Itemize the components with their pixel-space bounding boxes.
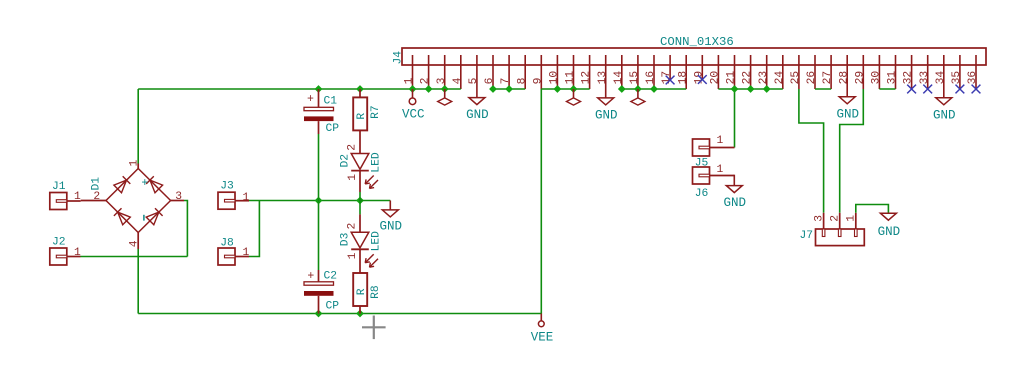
- svg-text:2: 2: [347, 223, 359, 230]
- svg-text:1: 1: [347, 174, 359, 181]
- svg-text:4: 4: [128, 240, 140, 247]
- svg-text:35: 35: [951, 71, 963, 85]
- svg-text:GND: GND: [933, 108, 956, 122]
- svg-text:C1: C1: [324, 95, 338, 107]
- svg-text:6: 6: [484, 77, 496, 84]
- svg-text:22: 22: [742, 71, 754, 85]
- svg-text:D1: D1: [90, 177, 102, 191]
- svg-text:VEE: VEE: [531, 331, 554, 345]
- svg-text:1: 1: [243, 192, 250, 204]
- svg-text:GND: GND: [466, 108, 489, 122]
- svg-text:1: 1: [846, 215, 858, 222]
- svg-text:12: 12: [581, 71, 593, 85]
- svg-text:J7: J7: [800, 230, 814, 242]
- svg-text:LED: LED: [370, 152, 382, 173]
- svg-text:21: 21: [726, 71, 738, 85]
- svg-text:1: 1: [404, 77, 416, 84]
- svg-text:GND: GND: [724, 196, 747, 210]
- svg-text:1: 1: [74, 247, 81, 259]
- svg-text:16: 16: [645, 71, 657, 85]
- svg-text:28: 28: [838, 71, 850, 85]
- svg-text:CONN_01X36: CONN_01X36: [660, 35, 734, 49]
- svg-text:33: 33: [919, 71, 931, 85]
- svg-text:2: 2: [420, 78, 432, 85]
- svg-text:10: 10: [549, 71, 561, 85]
- svg-text:2: 2: [93, 191, 100, 203]
- svg-text:1: 1: [243, 247, 250, 259]
- svg-text:C2: C2: [324, 271, 338, 283]
- svg-text:+: +: [307, 93, 314, 106]
- svg-text:J3: J3: [220, 181, 234, 193]
- svg-text:R8: R8: [370, 285, 382, 299]
- svg-text:D3: D3: [340, 232, 352, 246]
- svg-text:24: 24: [774, 71, 786, 85]
- svg-text:LED: LED: [370, 231, 382, 252]
- svg-text:R7: R7: [370, 105, 382, 119]
- svg-text:D2: D2: [340, 154, 352, 168]
- svg-text:32: 32: [903, 71, 915, 85]
- svg-text:25: 25: [790, 71, 802, 85]
- svg-text:27: 27: [822, 71, 834, 85]
- svg-text:7: 7: [500, 78, 512, 85]
- svg-text:R: R: [356, 288, 368, 295]
- svg-text:3: 3: [436, 77, 448, 84]
- svg-text:1: 1: [347, 252, 359, 259]
- svg-text:18: 18: [677, 71, 689, 85]
- svg-text:CP: CP: [326, 123, 340, 135]
- svg-text:J4: J4: [393, 51, 405, 65]
- svg-text:J1: J1: [52, 181, 66, 193]
- svg-text:3: 3: [175, 191, 182, 203]
- svg-text:9: 9: [532, 78, 544, 85]
- svg-text:CP: CP: [326, 301, 340, 313]
- svg-text:1: 1: [74, 191, 81, 203]
- svg-text:J8: J8: [220, 238, 234, 250]
- svg-text:5: 5: [468, 77, 480, 84]
- svg-text:GND: GND: [380, 220, 403, 234]
- svg-text:2: 2: [830, 215, 842, 222]
- svg-text:VCC: VCC: [402, 108, 425, 122]
- svg-text:GND: GND: [595, 108, 618, 122]
- svg-text:15: 15: [629, 71, 641, 85]
- svg-text:30: 30: [871, 71, 883, 85]
- svg-text:26: 26: [806, 71, 818, 85]
- svg-text:4: 4: [452, 77, 464, 84]
- svg-text:GND: GND: [878, 225, 901, 239]
- svg-text:23: 23: [758, 71, 770, 85]
- svg-text:2: 2: [347, 144, 359, 151]
- svg-text:+: +: [307, 270, 314, 283]
- svg-text:29: 29: [854, 71, 866, 85]
- svg-text:8: 8: [516, 77, 528, 84]
- svg-text:R: R: [356, 113, 368, 120]
- svg-text:14: 14: [613, 71, 625, 85]
- svg-text:13: 13: [597, 71, 609, 85]
- svg-text:31: 31: [887, 71, 899, 85]
- svg-text:1: 1: [717, 135, 724, 147]
- svg-text:34: 34: [935, 71, 947, 85]
- svg-text:J2: J2: [52, 237, 66, 249]
- svg-text:1: 1: [129, 160, 141, 167]
- svg-text:20: 20: [710, 71, 722, 85]
- svg-text:11: 11: [565, 71, 577, 85]
- svg-text:1: 1: [717, 164, 724, 176]
- svg-text:J6: J6: [695, 188, 709, 200]
- svg-text:+: +: [141, 177, 148, 190]
- svg-text:3: 3: [814, 215, 826, 222]
- svg-text:GND: GND: [836, 107, 859, 121]
- svg-text:36: 36: [967, 71, 979, 85]
